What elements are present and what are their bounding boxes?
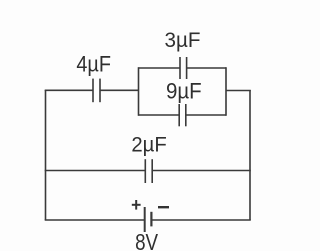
battery B1 long plate [144,207,146,232]
wire middle branch right lead [153,170,251,172]
wire left trunk [45,90,47,220]
wire bottom branch right lead [152,219,251,221]
capacitor C3 9uF plates [178,104,180,126]
wire box to right trunk [226,90,251,92]
wire box top edge left [139,67,180,69]
svg-text:2µF: 2µF [131,133,166,157]
capacitor C1 4uF plates [92,79,94,103]
wire box right edge [225,67,227,116]
svg-text:3µF: 3µF [165,28,201,52]
wire box top edge right [187,67,226,69]
svg-text:9µF: 9µF [166,78,202,103]
svg-text:4µF: 4µF [76,52,111,77]
wire bottom branch left lead [45,219,144,221]
wire top branch left lead [45,89,93,91]
svg-text:8V: 8V [135,229,158,251]
wire right trunk [249,90,251,220]
wire box bottom edge left [139,114,180,116]
wire box bottom edge right [187,114,227,116]
wire top branch right lead [100,89,139,91]
battery B1 short plate [150,212,152,227]
wire middle branch left lead [45,170,145,172]
label battery plus [132,200,141,210]
wire box left edge [138,67,140,116]
capacitor C2 3uF plates [179,57,181,79]
capacitor C4 2uF plates [144,159,146,183]
label battery minus [158,206,169,208]
